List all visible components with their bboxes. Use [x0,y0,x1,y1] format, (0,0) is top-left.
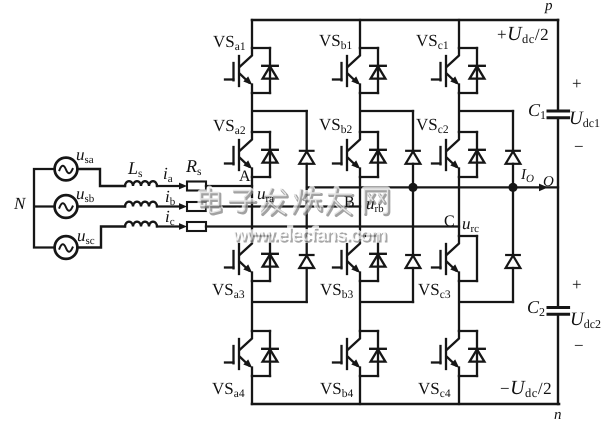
IGBT VS_c2 [432,132,485,177]
svg-text:p: p [544,0,553,14]
arrow i_c [179,223,187,230]
IGBT VS_c4 [432,331,485,376]
wire: leg a top (rail to VSa1) [251,20,253,48]
IGBT VS_c1 [432,48,485,93]
wire: phase c inductor to R_s [157,225,181,227]
IGBT VS_a4 [225,331,278,376]
watermark chinese core [201,189,388,215]
wire: phase a from source to inductor [77,169,125,186]
svg-text:A: A [239,168,251,185]
wire: leg b VSb1-VSb2 with clamp tap [360,93,413,132]
wire: neutral bus N [34,169,55,248]
svg-text:+: + [572,275,582,294]
resistor R_s phase a [187,182,206,191]
svg-text:−Udc/2: −Udc/2 [500,377,552,400]
svg-text:IO: IO [520,167,534,185]
wire: leg c VSc1-VSc2 with clamp tap [459,93,513,132]
capacitor C1 [548,111,569,118]
wire: clamp string c [512,111,514,302]
svg-text:VSb4: VSb4 [320,379,353,400]
arrow I_O [539,184,548,192]
svg-text:usb: usb [76,184,95,205]
capacitor C2 [548,308,569,315]
svg-text:−: − [574,336,584,355]
arrow i_a [179,183,187,190]
arrow i_b [179,203,187,210]
clamp diode D_c2 [506,255,521,268]
svg-text:Rs: Rs [185,156,202,178]
svg-text:C: C [444,213,455,230]
wire: phase c from source to inductor [77,227,125,248]
wire: phase b from source to inductor [77,205,125,207]
clamp diode D_a1 [299,151,314,164]
svg-text:VSb3: VSb3 [320,280,353,301]
source u_sc [55,236,78,259]
svg-text:ib: ib [165,187,176,208]
svg-text:VSa4: VSa4 [212,379,245,400]
svg-text:VSa2: VSa2 [213,116,246,137]
svg-text:VSb2: VSb2 [319,115,352,136]
svg-text:VSa1: VSa1 [213,32,246,53]
inductor L_s phase b [125,202,157,207]
IGBT VS_b2 [333,132,386,177]
svg-text:B: B [344,194,355,211]
junction node on O line at clamp c [508,183,517,192]
wire: right dc rail middle (C1 to C2) [557,118,559,307]
svg-text:Ls: Ls [127,158,143,180]
IGBT VS_a1 [225,48,278,93]
wire: leg b VSb3-VSb4 with clamp tap [360,281,413,331]
svg-text:N: N [13,194,27,213]
watermark halo [201,189,388,215]
svg-text:+: + [572,74,582,93]
svg-text:usa: usa [76,145,94,166]
wire: bottom rail n [252,403,559,406]
svg-text:C2: C2 [527,297,545,319]
IGBT VS_b4 [333,331,386,376]
inductor L_s phase c [125,222,157,227]
svg-text:VSc2: VSc2 [416,115,449,136]
source u_sa [55,158,78,181]
IGBT VS_b1 [333,48,386,93]
svg-text:VSc3: VSc3 [418,280,451,301]
wire: leg a VSa3-VSa4 with clamp tap [252,281,307,331]
clamp diode D_c1 [506,151,521,164]
resistor R_s phase c [187,222,206,231]
resistor R_s phase b [187,202,206,211]
svg-text:ia: ia [163,164,173,185]
wire: phase a R_s to node A [206,185,252,187]
svg-text:VSc1: VSc1 [416,31,449,52]
svg-text:O: O [543,174,554,190]
wire: leg a node A to VSa3 [251,177,253,236]
wire: phase b inductor to R_s [157,205,181,207]
wire: leg b node B to VSb3 [359,177,361,236]
wire: leg c bottom (VSc4 to rail) [458,376,460,404]
svg-text:www.elecfans.com: www.elecfans.com [232,224,386,245]
watermark chinese shadow [202,190,389,216]
inductor L_s phase a [125,181,157,186]
svg-text:Udc1: Udc1 [569,108,600,130]
wire: leg a VSa1-VSa2 with clamp tap [252,93,307,132]
wire: clamp string b [412,111,414,302]
svg-text:n: n [554,407,562,423]
wire: phase c R_s to node C [206,225,459,227]
svg-text:ic: ic [165,207,175,228]
svg-text:VSb1: VSb1 [319,31,352,52]
svg-text:+Udc/2: +Udc/2 [497,23,549,46]
svg-text:VSa3: VSa3 [212,280,245,301]
wire: top rail p [252,19,558,22]
wire: leg c node C to VSc3 [458,177,460,236]
wire: phase b R_s to node B [206,205,360,207]
clamp diode D_a2 [299,255,314,268]
IGBT VS_a2 [225,132,278,177]
wire: leg b top (rail to VSb1) [359,20,361,48]
wire: leg a bottom (VSa4 to rail) [251,376,253,404]
wire: right dc rail upper (p to C1) [557,20,559,110]
IGBT VS_a3 [225,236,278,281]
wire: leg c top (rail to VSc1) [458,20,460,48]
svg-text:Udc2: Udc2 [570,309,601,331]
junction node on O line at clamp b [408,183,417,192]
svg-text:VSc4: VSc4 [418,379,451,400]
svg-text:−: − [574,137,584,156]
IGBT VS_c3 [432,236,477,281]
svg-text:C1: C1 [528,100,546,122]
clamp diode D_b1 [406,151,421,164]
clamp diode D_b2 [406,255,421,268]
svg-text:usc: usc [77,226,95,247]
svg-text:urc: urc [462,214,479,235]
wire: right dc rail lower (C2 to n) [557,314,559,404]
wire: midpoint O line [307,186,558,188]
wire: phase a inductor to R_s [157,185,181,187]
wire: clamp string a [306,111,308,302]
wire: leg c VSc3-VSc4 with clamp tap [459,281,513,331]
IGBT VS_b3 [333,236,386,281]
wire: leg b bottom (VSb4 to rail) [359,376,361,404]
source u_sb [55,195,78,218]
